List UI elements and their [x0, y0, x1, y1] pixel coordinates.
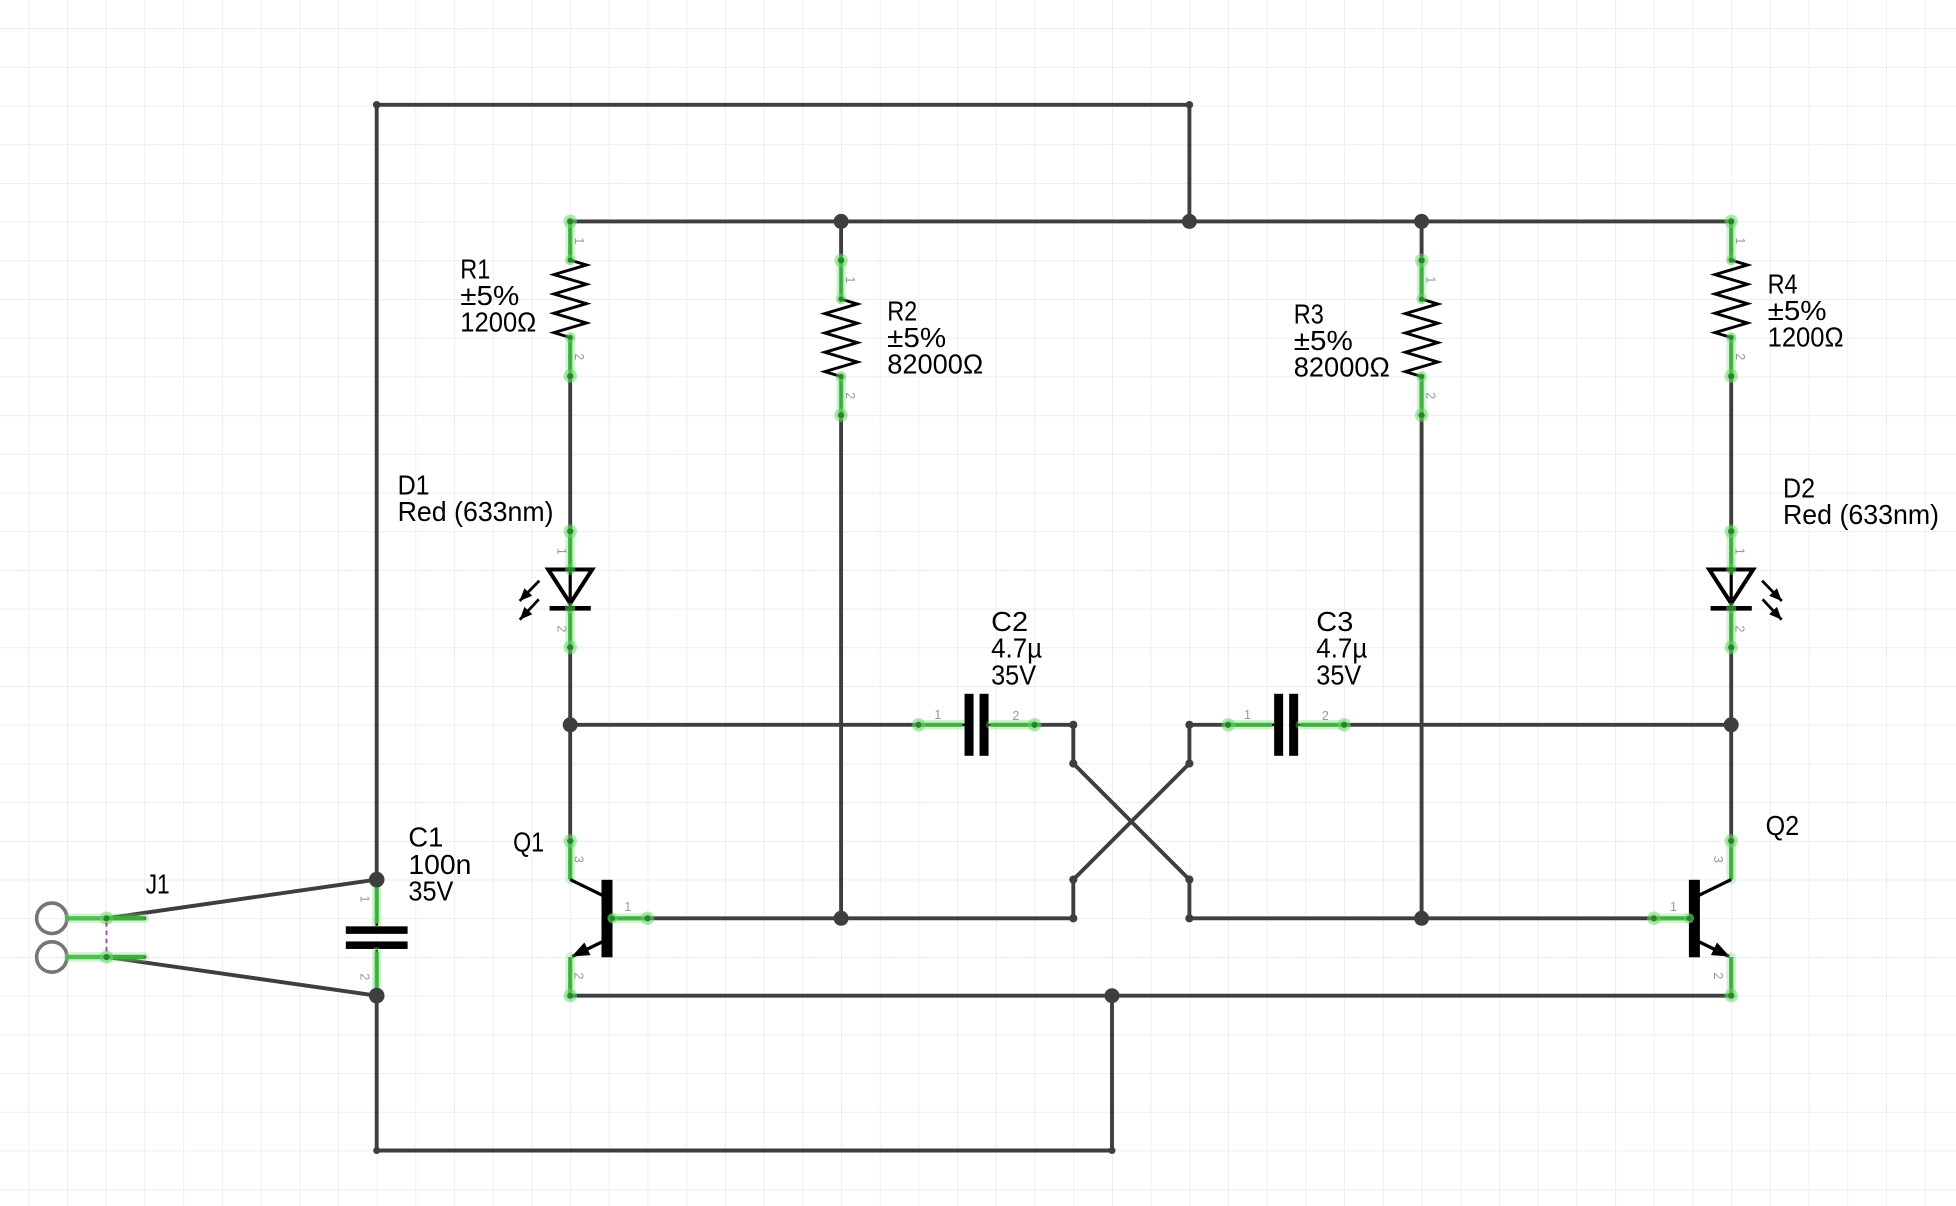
- wire R3 top stub: [1420, 221, 1424, 260]
- wire emitter rail: [570, 994, 1731, 998]
- svg-text:2: 2: [1012, 709, 1019, 723]
- transistor Q1: [563, 834, 654, 1002]
- svg-text:1200Ω: 1200Ω: [1768, 322, 1844, 353]
- wire R2 top stub: [839, 221, 843, 260]
- svg-text:Red (633nm): Red (633nm): [398, 496, 554, 527]
- transistor Q2: [1647, 834, 1738, 1002]
- svg-text:35V: 35V: [408, 875, 454, 906]
- wire bendpoint X bottom left: [1069, 876, 1077, 884]
- capacitor C3: [1221, 694, 1351, 756]
- svg-text:1: 1: [358, 896, 372, 903]
- wire R3 bottom to base net: [1420, 415, 1424, 918]
- svg-text:35V: 35V: [991, 659, 1037, 690]
- label C3: [1316, 606, 1367, 691]
- svg-text:2: 2: [1732, 625, 1746, 632]
- wire R2 bottom to base net: [839, 415, 843, 918]
- wire cross diagonal to Q1 base: [648, 764, 1190, 919]
- wire C3 pin2 to node B: [1344, 723, 1731, 727]
- label R4: [1768, 269, 1844, 353]
- svg-text:2: 2: [843, 392, 857, 399]
- wire cross diagonal to Q2 base: [1073, 764, 1654, 919]
- connector J1: [37, 903, 145, 972]
- wire R4 to D2: [1729, 377, 1733, 532]
- wire ground return bottom: [377, 1149, 1112, 1153]
- wire left vertical to C1: [375, 105, 379, 880]
- svg-text:2: 2: [1322, 709, 1329, 723]
- svg-text:1: 1: [554, 548, 568, 555]
- svg-text:1: 1: [572, 237, 586, 244]
- svg-text:J1: J1: [146, 869, 170, 900]
- wire top rail: [377, 103, 1190, 107]
- label R1: [460, 253, 536, 337]
- resistor R2: [825, 254, 858, 422]
- label R2: [887, 295, 983, 379]
- svg-text:2: 2: [1711, 972, 1725, 979]
- svg-text:2: 2: [554, 625, 568, 632]
- wire bendpoint top-right: [1186, 101, 1194, 109]
- junction C1 pin2 / J1: [369, 988, 385, 1004]
- wire ground return down: [1110, 996, 1114, 1151]
- svg-text:1: 1: [1732, 548, 1746, 555]
- wire bendpoint C2 cross lower: [1069, 759, 1077, 767]
- svg-text:1: 1: [624, 900, 631, 914]
- wire bendpoint C3 cross upper: [1185, 721, 1193, 729]
- wire ground return up to C1: [375, 996, 379, 1151]
- wire top right drop: [1187, 105, 1191, 222]
- junction R3 / rail: [1414, 214, 1429, 229]
- label R3: [1294, 298, 1390, 382]
- wire bendpoint ground left: [373, 1147, 380, 1154]
- junction Q1 base / R2: [834, 911, 849, 926]
- LED D1: [520, 525, 593, 655]
- svg-text:1: 1: [1733, 237, 1747, 244]
- svg-text:3: 3: [572, 856, 586, 863]
- wire bendpoint base left: [1069, 914, 1077, 922]
- svg-text:1: 1: [1670, 900, 1677, 914]
- junction R2 / rail: [834, 214, 849, 229]
- svg-text:35V: 35V: [1316, 660, 1362, 691]
- svg-text:82000Ω: 82000Ω: [887, 348, 983, 379]
- label D2: [1783, 473, 1939, 531]
- svg-text:2: 2: [572, 972, 586, 979]
- svg-text:2: 2: [358, 973, 372, 980]
- svg-text:Red (633nm): Red (633nm): [1783, 499, 1939, 530]
- svg-text:Q1: Q1: [513, 826, 544, 857]
- junction node A (D1/C2/Q1): [563, 717, 578, 732]
- wire bendpoint X bottom right: [1185, 876, 1193, 884]
- wire node A to C2 pin1: [570, 723, 918, 727]
- label J1: [146, 869, 170, 900]
- svg-text:Q2: Q2: [1766, 810, 1800, 841]
- wire C2 pin2 to cross: [1035, 725, 1074, 764]
- resistor R3: [1405, 254, 1438, 422]
- wire node B to Q2 collector: [1729, 725, 1733, 841]
- wire bendpoint top-left: [373, 101, 381, 109]
- junction node B (D2/C3/Q2): [1724, 717, 1739, 732]
- label C2: [991, 606, 1042, 691]
- wire supply rail: [570, 219, 1731, 223]
- label C1: [408, 822, 471, 907]
- wire node A to Q1 collector: [568, 725, 572, 841]
- LED D2: [1709, 525, 1782, 655]
- wire bendpoint base right: [1185, 914, 1193, 922]
- resistor R1: [554, 215, 587, 383]
- label Q2: [1766, 810, 1800, 841]
- capacitor C2: [912, 694, 1042, 756]
- wire R1 to D1: [568, 377, 572, 532]
- wire bendpoint C3 cross lower: [1185, 759, 1193, 767]
- wire bendpoint ground mid: [1109, 1147, 1116, 1154]
- label D1: [398, 470, 554, 527]
- svg-text:1: 1: [843, 276, 857, 283]
- wire C3 pin1 to cross: [1189, 725, 1228, 764]
- svg-text:1: 1: [1244, 708, 1251, 722]
- svg-text:82000Ω: 82000Ω: [1294, 351, 1390, 382]
- wire J1 pin2 to C1 bottom: [107, 957, 377, 996]
- wire D1 to node A: [568, 647, 572, 724]
- junction C1 pin1 / J1: [369, 872, 385, 888]
- junction Q2 base / R3: [1414, 911, 1429, 926]
- svg-text:3: 3: [1711, 856, 1725, 863]
- svg-text:1200Ω: 1200Ω: [460, 306, 536, 337]
- wire bendpoint C2 cross upper: [1069, 721, 1077, 729]
- junction top drop / rail: [1182, 214, 1197, 229]
- J1 internal bus (dashed): [106, 922, 108, 954]
- wire J1 pin1 to C1 top: [107, 880, 377, 919]
- junction emitter / ground: [1105, 988, 1120, 1003]
- label Q1: [513, 826, 544, 857]
- resistor R4: [1715, 215, 1748, 383]
- wire D2 to node B: [1729, 647, 1733, 724]
- svg-text:1: 1: [934, 708, 941, 722]
- svg-text:2: 2: [572, 353, 586, 360]
- svg-text:2: 2: [1733, 353, 1747, 360]
- capacitor C1: [346, 873, 408, 1003]
- svg-text:2: 2: [1424, 392, 1438, 399]
- svg-text:1: 1: [1424, 276, 1438, 283]
